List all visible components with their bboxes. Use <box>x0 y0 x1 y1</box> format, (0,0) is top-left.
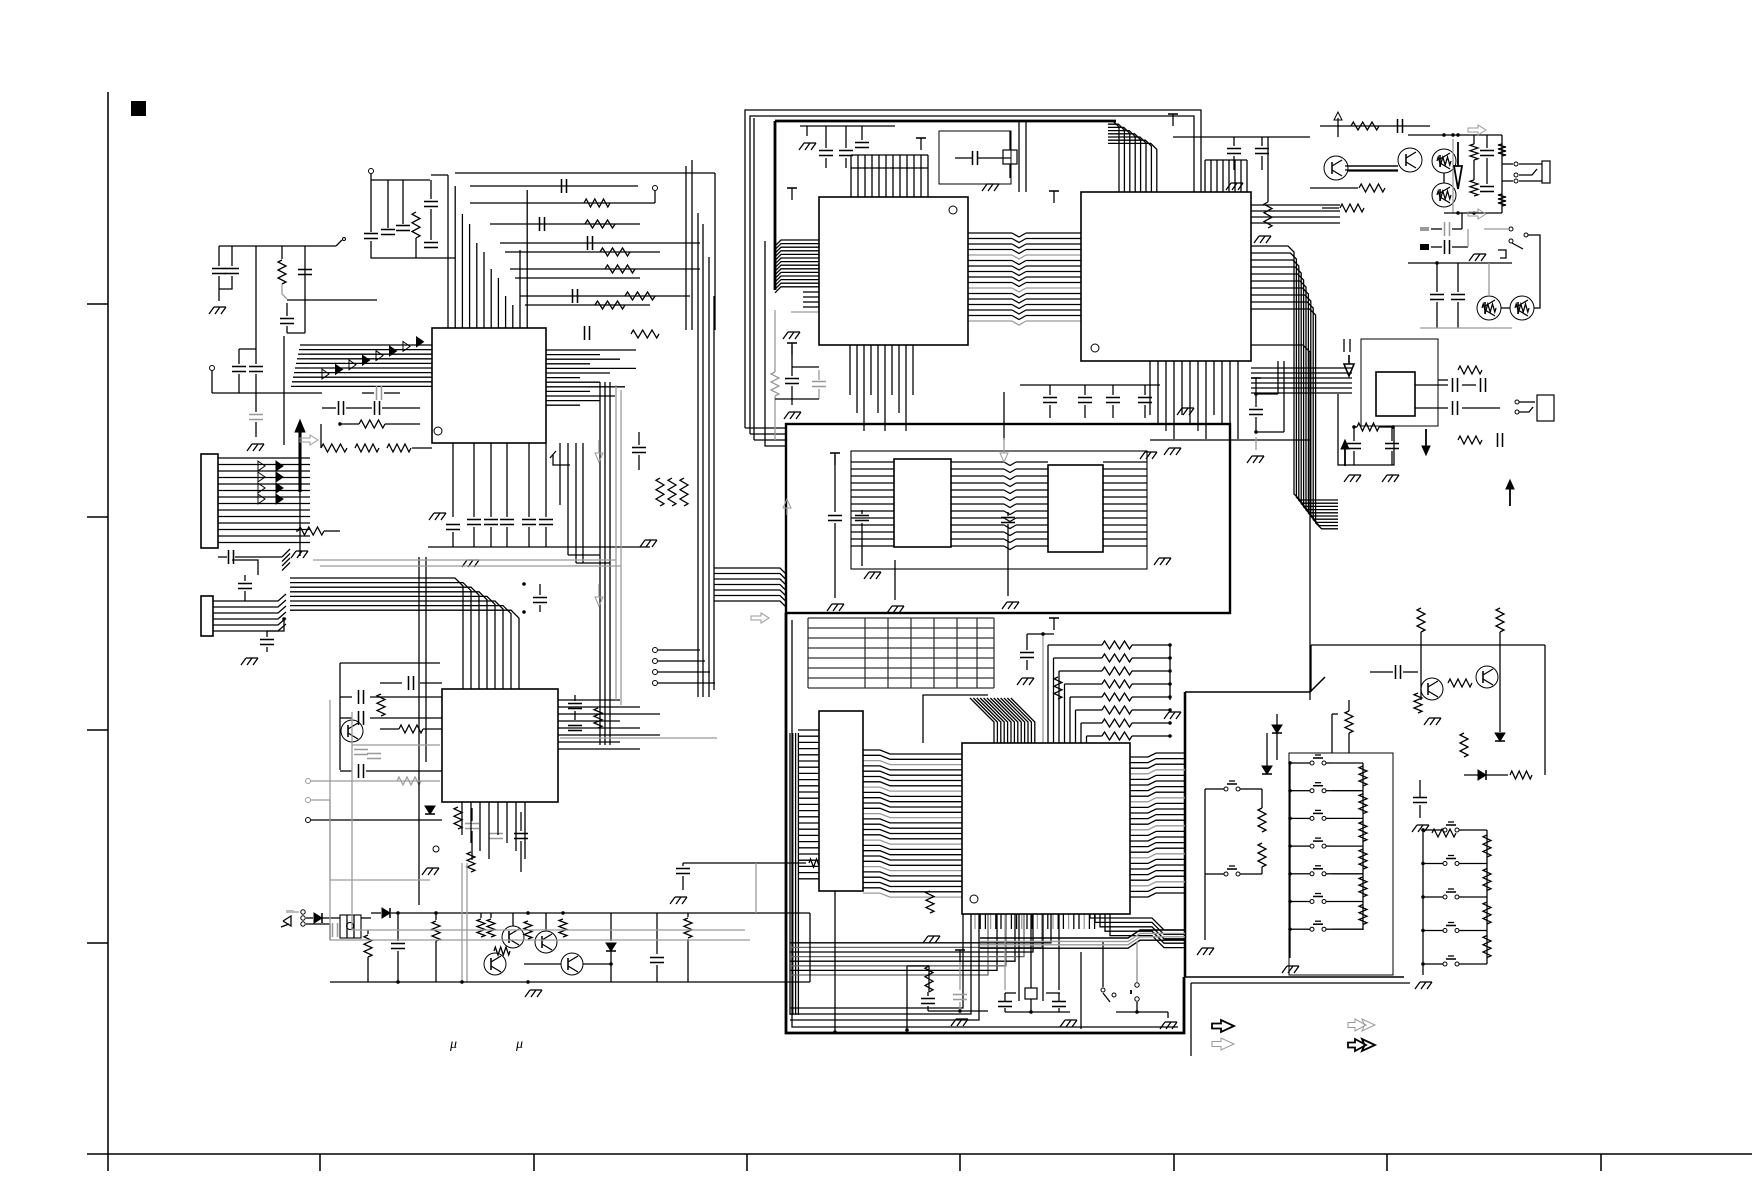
svg-text:μ: μ <box>515 1037 523 1052</box>
svg-text:μ: μ <box>449 1037 457 1052</box>
